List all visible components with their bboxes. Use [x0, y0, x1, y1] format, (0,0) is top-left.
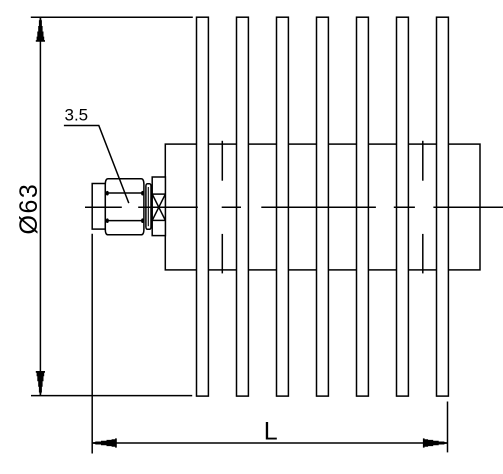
connector ring middle edge — [147, 187, 149, 226]
hex flat lower left tip — [106, 218, 109, 223]
hex flat upper line — [107, 192, 143, 194]
leader line 3.5 — [64, 126, 129, 204]
svg-text:Ø63: Ø63 — [15, 183, 43, 235]
body cylinder core outline — [165, 144, 480, 270]
flange divider lower — [152, 219, 165, 221]
fin 7 — [437, 17, 449, 396]
fin 5 — [357, 17, 369, 396]
hex flat upper left tip — [106, 191, 109, 196]
centerline dash 4 — [261, 206, 376, 208]
connector pin cap — [92, 184, 105, 230]
L dim extension line right — [447, 402, 449, 453]
groove mark left bottom — [221, 234, 223, 274]
hex flat upper right tip — [141, 191, 144, 196]
dim extension line top — [31, 16, 193, 18]
connector hex nut — [105, 179, 144, 235]
groove mark left top — [221, 141, 223, 181]
L dim extension line left — [91, 234, 93, 454]
arrowhead L left — [93, 438, 117, 447]
centerline dash 1 — [85, 206, 122, 208]
fin 1 — [197, 17, 209, 396]
flange cross diagonal 2 — [152, 194, 165, 220]
centerline dash 3 — [222, 206, 241, 208]
flange divider upper — [152, 193, 165, 195]
centerline dash 2 — [138, 206, 198, 208]
svg-text:L: L — [264, 418, 278, 446]
connector flange — [152, 177, 165, 236]
dim extension line bottom — [31, 395, 192, 397]
arrowhead dia63 bottom — [36, 371, 45, 395]
centerline dash 6 — [433, 206, 503, 208]
fin 3 — [277, 17, 289, 396]
dim line vertical — [39, 17, 41, 395]
L dim line — [92, 442, 447, 444]
fin 6 — [397, 17, 409, 396]
hex flat lower line — [107, 220, 143, 222]
flange cross diagonal 1 — [152, 194, 165, 220]
svg-text:3.5: 3.5 — [65, 106, 89, 125]
centerline dash 5 — [394, 206, 415, 208]
hex flat lower right tip — [141, 218, 144, 223]
arrowhead dia63 top — [36, 18, 45, 42]
connector ring — [146, 184, 151, 230]
groove mark right top — [422, 141, 424, 181]
groove mark right bottom — [422, 234, 424, 274]
arrowhead L right — [423, 438, 447, 447]
fin 2 — [237, 17, 249, 396]
fin 4 — [317, 17, 329, 396]
